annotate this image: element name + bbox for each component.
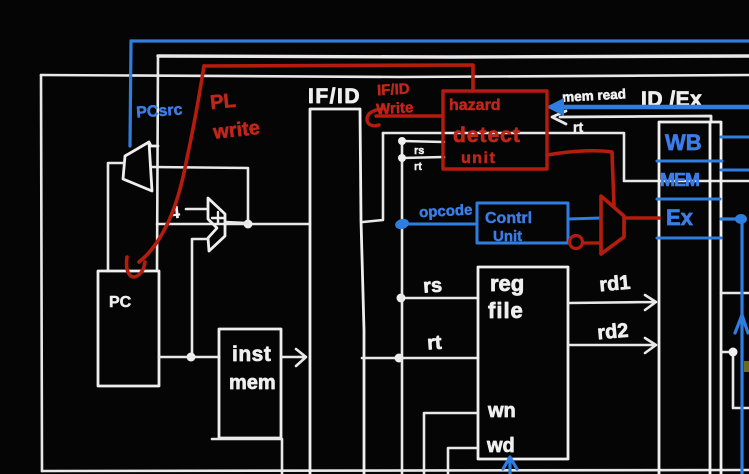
svg-text:rt: rt xyxy=(426,332,442,355)
wire blue mem read arrow into hazard xyxy=(554,105,749,110)
node blue junction xyxy=(735,214,747,224)
node pc+4 junction xyxy=(244,220,253,229)
constant 0 xyxy=(570,236,583,249)
instruction memory xyxy=(219,329,281,438)
svg-text:file: file xyxy=(488,298,524,323)
node right branch junction xyxy=(729,348,738,357)
wire mux M1 right input xyxy=(152,167,248,224)
wire control to mux M2 xyxy=(568,218,601,219)
wire outer box bottom xyxy=(42,470,749,471)
wire blue MEM stub xyxy=(721,169,749,172)
hazard detect unit xyxy=(443,91,547,169)
wire rt feedback arrow into hazard xyxy=(552,111,711,124)
wire instruction field bus vertical xyxy=(401,141,404,474)
wire blue WB stub xyxy=(721,136,749,139)
node adder input junction xyxy=(187,353,196,362)
svg-text:IF/ID: IF/ID xyxy=(377,81,411,100)
wire constant 4 to adder xyxy=(186,208,206,211)
svg-text:PL: PL xyxy=(209,90,237,115)
node hazard rt junction xyxy=(398,154,406,162)
svg-text:rt: rt xyxy=(573,119,583,135)
wire blue EX output down right side xyxy=(721,219,742,474)
mux M1 xyxy=(123,142,158,191)
wire red IF/ID write arrow xyxy=(367,109,443,126)
svg-text:rd2: rd2 xyxy=(596,320,629,345)
svg-text:PCsrc: PCsrc xyxy=(136,101,183,121)
adder xyxy=(208,198,225,251)
wire inst mem output arrow xyxy=(282,349,306,366)
wire red PCWrite slant down to PC xyxy=(139,66,204,262)
inst mem underline xyxy=(212,439,282,474)
svg-text:rs: rs xyxy=(422,274,442,297)
svg-text:hazard: hazard xyxy=(449,97,501,114)
yellow mark right edge xyxy=(744,361,749,372)
svg-text:wn: wn xyxy=(487,400,516,422)
svg-text:PC: PC xyxy=(109,294,132,311)
svg-text:Contrl: Contrl xyxy=(485,210,532,227)
wire wd input xyxy=(448,448,478,474)
wire red hazard to mux M2 xyxy=(547,151,614,205)
svg-text:MEM: MEM xyxy=(660,170,699,190)
svg-text:opcode: opcode xyxy=(419,201,473,221)
control unit xyxy=(477,203,568,243)
svg-text:detect: detect xyxy=(453,124,521,147)
svg-text:unit: unit xyxy=(461,150,496,167)
wire instruction bus top xyxy=(383,133,749,181)
svg-text:IF/ID: IF/ID xyxy=(308,85,361,108)
wire rd1 output arrow xyxy=(569,295,656,310)
svg-text:mem: mem xyxy=(229,372,276,394)
svg-text:Write: Write xyxy=(376,99,414,118)
svg-text:wd: wd xyxy=(486,435,515,457)
PC register xyxy=(98,271,159,386)
register file xyxy=(478,267,568,459)
wire adder output xyxy=(225,222,248,223)
ID/EX register xyxy=(659,122,721,474)
ID/EX divider WB xyxy=(657,160,722,163)
wire rt to reg file xyxy=(362,357,478,360)
adder plus label xyxy=(212,212,224,224)
svg-text:rt: rt xyxy=(414,161,422,173)
svg-text:WB: WB xyxy=(665,130,702,155)
ID/EX divider MEM xyxy=(657,198,720,201)
mux M2 xyxy=(601,196,624,254)
wire blue branch target line xyxy=(131,39,749,42)
wire rd2 output arrow xyxy=(569,338,656,353)
node opcode junction xyxy=(394,217,410,230)
wire opcode to control unit xyxy=(403,223,477,226)
wire mux M2 output to EX xyxy=(624,216,659,220)
svg-text:Unit: Unit xyxy=(493,228,522,245)
wire right branch with corner xyxy=(721,352,749,408)
wire wn input xyxy=(424,413,478,474)
svg-text:reg: reg xyxy=(490,271,524,296)
wire top feedback line xyxy=(158,56,749,57)
red hook arrow onto PC xyxy=(127,257,145,277)
svg-text:inst: inst xyxy=(232,343,271,366)
wire IF/ID tap vertical xyxy=(363,133,383,222)
wire vertical from top line down to PC column xyxy=(157,56,158,270)
wire 0 to mux M2 xyxy=(583,241,601,244)
blue up arrowhead right xyxy=(735,315,748,333)
svg-text:rs: rs xyxy=(414,145,424,157)
wire pc+4 bus into IF/ID xyxy=(157,223,310,226)
wire rs to reg file xyxy=(402,297,478,300)
wire red PCWrite top xyxy=(204,65,473,91)
svg-text:Ex: Ex xyxy=(666,205,694,230)
node hazard rs junction xyxy=(398,137,406,145)
wire hazard input rt xyxy=(402,157,444,158)
node rs junction xyxy=(397,294,406,303)
wire blue vertical to mux M1 xyxy=(130,41,131,146)
wire outer box top xyxy=(41,75,749,77)
blue up arrow into reg file wd xyxy=(503,457,517,474)
wire WB stub right xyxy=(721,292,749,295)
wire adder bottom input xyxy=(192,239,208,357)
wire outer box left xyxy=(41,75,42,471)
svg-text:rd1: rd1 xyxy=(598,272,631,297)
ID/EX divider EX xyxy=(657,237,721,240)
wire hazard input rs xyxy=(402,141,444,142)
wire mux M1 output to PC xyxy=(108,163,124,271)
node rt junction xyxy=(395,354,404,363)
IF/ID register xyxy=(310,109,364,474)
wire PC to inst mem xyxy=(159,356,219,359)
